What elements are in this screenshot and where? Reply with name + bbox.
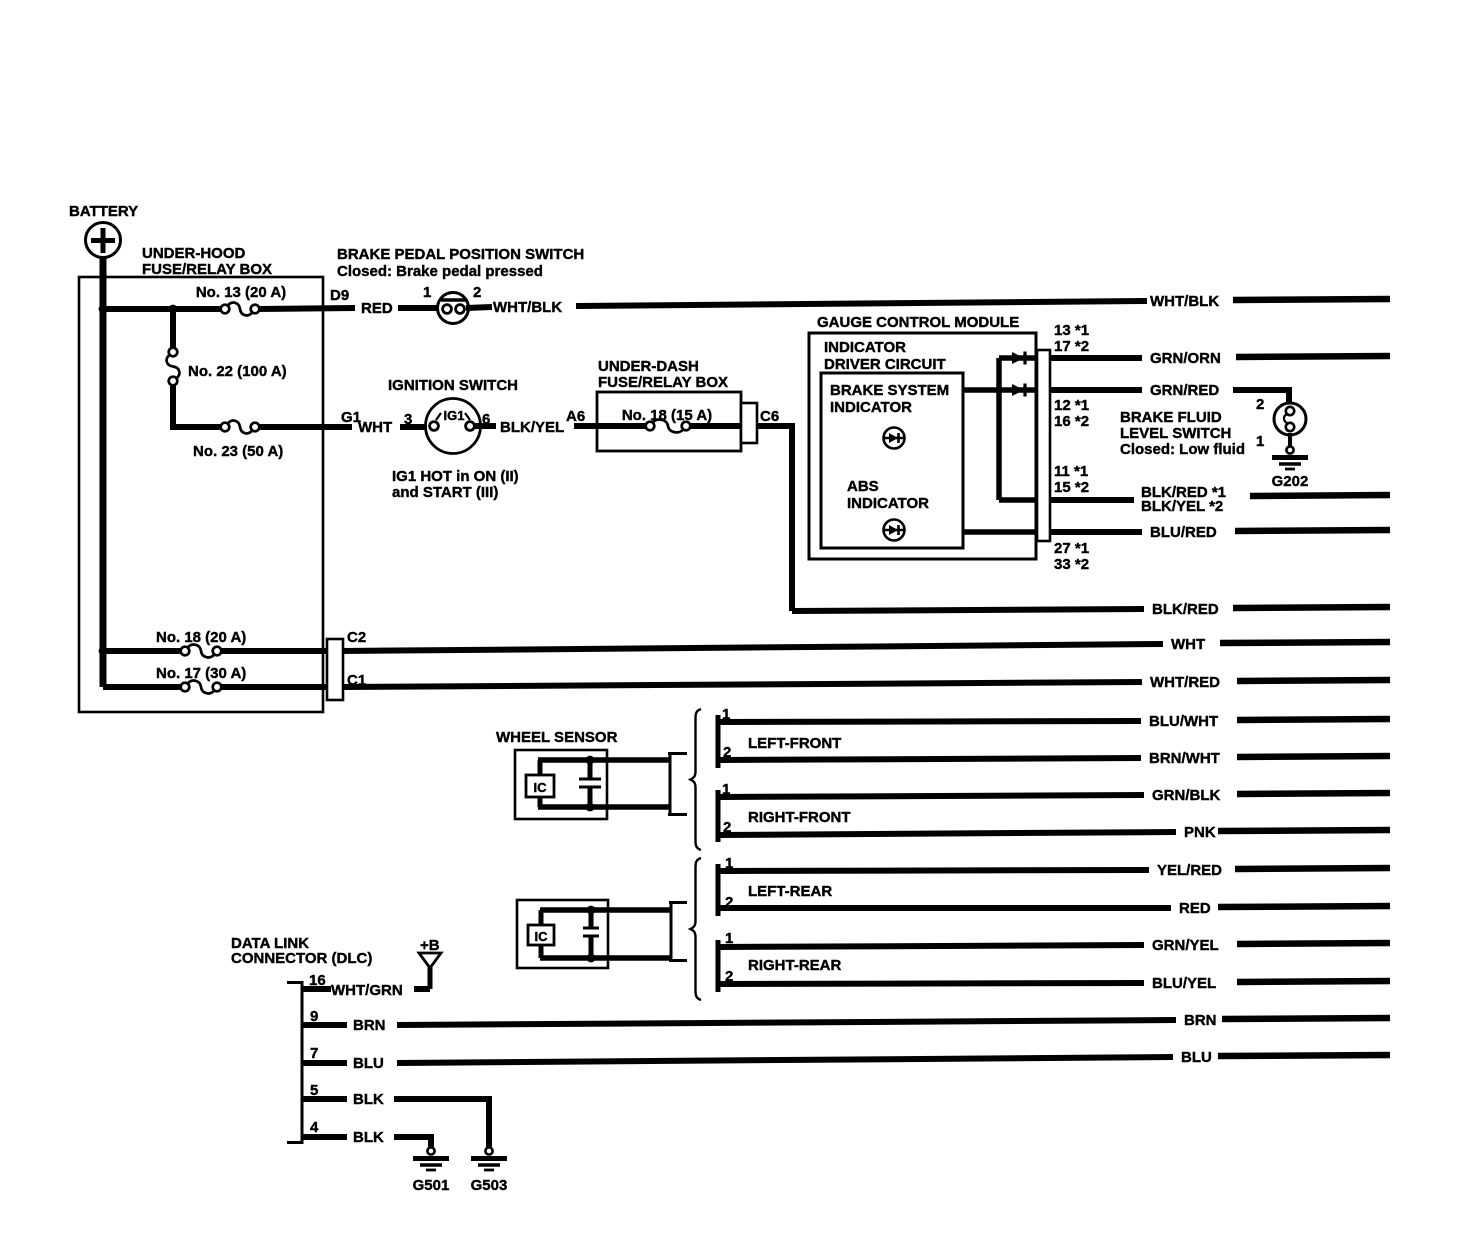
svg-text:C2: C2 — [347, 629, 366, 646]
svg-text:12 *1: 12 *1 — [1054, 397, 1089, 414]
svg-text:No. 17 (30 A): No. 17 (30 A) — [156, 665, 246, 682]
svg-text:BLU: BLU — [1181, 1049, 1212, 1066]
wire BLK (pin 5) — [302, 1096, 347, 1102]
svg-text:1: 1 — [423, 284, 431, 301]
svg-text:15 *2: 15 *2 — [1054, 479, 1089, 496]
wire battery to fuse No.13 — [103, 306, 221, 312]
svg-text:BRN/WHT: BRN/WHT — [1149, 750, 1220, 767]
wire BRN — [302, 1022, 347, 1028]
svg-text:2: 2 — [473, 284, 481, 301]
ground G202 — [1286, 446, 1293, 453]
svg-text:CONNECTOR (DLC): CONNECTOR (DLC) — [231, 950, 372, 967]
under-hood fuse/relay box — [79, 245, 323, 712]
fuse No. 22 (100 A) — [167, 348, 287, 386]
wire sensor1 bottom — [538, 804, 670, 810]
svg-text:33 *2: 33 *2 — [1054, 556, 1089, 573]
svg-text:4: 4 — [310, 1119, 319, 1136]
wire fuse No.13 to D9 — [259, 308, 355, 309]
svg-text:LEVEL SWITCH: LEVEL SWITCH — [1120, 425, 1231, 442]
svg-text:C6: C6 — [760, 408, 779, 425]
svg-text:LEFT-FRONT: LEFT-FRONT — [748, 735, 841, 752]
svg-text:GRN/RED: GRN/RED — [1150, 382, 1219, 399]
svg-text:BLK: BLK — [353, 1129, 384, 1146]
svg-text:BRAKE FLUID: BRAKE FLUID — [1120, 409, 1222, 426]
wire BLK/RED *1 / BLK/YEL *2 — [1050, 497, 1134, 503]
wire WHT/RED (C1) — [343, 682, 1142, 687]
svg-text:LEFT-REAR: LEFT-REAR — [748, 883, 832, 900]
svg-text:BRN: BRN — [353, 1017, 386, 1034]
gauge control module — [809, 314, 1036, 559]
IC front sensor — [526, 760, 554, 807]
svg-text:3: 3 — [404, 411, 412, 428]
node LEFT-REAR connector — [716, 864, 721, 916]
svg-text:DRIVER CIRCUIT: DRIVER CIRCUIT — [824, 356, 946, 373]
svg-text:INDICATOR: INDICATOR — [830, 399, 912, 416]
svg-text:+B: +B — [420, 937, 440, 954]
wire BLU — [302, 1060, 347, 1066]
svg-text:IG1 HOT in ON (II): IG1 HOT in ON (II) — [392, 468, 519, 485]
svg-text:INDICATOR: INDICATOR — [847, 495, 929, 512]
wire fuse No.22 to No.23 — [170, 385, 176, 430]
ground G501 — [427, 1147, 434, 1154]
svg-text:IG1: IG1 — [444, 408, 465, 423]
svg-text:BLK/YEL *2: BLK/YEL *2 — [1141, 498, 1223, 515]
fuse No. 13 (20 A) — [196, 284, 286, 315]
wire into fuse No.18 (15A) — [597, 423, 646, 429]
wire WHT/BLK long run — [576, 301, 1147, 306]
svg-text:BLK/YEL: BLK/YEL — [500, 419, 564, 436]
node junction branch to No.22 — [169, 305, 178, 314]
wire GRN/BLK (RF pin 1) — [720, 795, 1144, 797]
brace rear wheel circuits — [691, 858, 702, 1000]
wire WHT/GRN — [302, 986, 331, 992]
wire ABS indicator output — [963, 529, 1037, 535]
svg-text:17 *2: 17 *2 — [1054, 338, 1089, 355]
wire PNK (RF pin 2) — [720, 832, 1176, 835]
svg-text:BLU: BLU — [353, 1055, 384, 1072]
svg-text:RED: RED — [361, 300, 393, 317]
wire BLU/WHT (LF pin 1) — [720, 721, 1141, 722]
capacitor rear sensor — [583, 906, 599, 963]
svg-text:G501: G501 — [413, 1177, 450, 1194]
wire GRN/YEL (RR pin 1) — [720, 945, 1144, 947]
svg-text:FUSE/RELAY BOX: FUSE/RELAY BOX — [598, 374, 728, 391]
svg-text:and START (III): and START (III) — [392, 484, 498, 501]
wire BLK/YEL — [474, 423, 496, 429]
svg-text:ABS: ABS — [847, 478, 879, 495]
svg-text:RIGHT-FRONT: RIGHT-FRONT — [748, 809, 851, 826]
connector gauge module — [1037, 350, 1050, 541]
node junction battery/No.18 — [99, 647, 108, 656]
data link connector (DLC) — [231, 935, 372, 1144]
ignition switch — [388, 377, 519, 501]
brake fluid level switch — [1120, 396, 1306, 458]
wire to pin 11/15 — [999, 497, 1037, 503]
capacitor front sensor — [579, 756, 601, 812]
wire diode D1 row — [999, 355, 1037, 361]
connector C2/C1 — [327, 639, 343, 700]
connector bracket rear sensor — [669, 901, 687, 962]
svg-text:7: 7 — [310, 1045, 318, 1062]
svg-text:WHEEL SENSOR: WHEEL SENSOR — [496, 729, 618, 746]
node RIGHT-FRONT connector — [716, 790, 721, 842]
svg-text:BLU/RED: BLU/RED — [1150, 524, 1217, 541]
svg-text:BLU/WHT: BLU/WHT — [1149, 713, 1218, 730]
brake pedal position switch — [337, 246, 584, 324]
svg-text:BLK: BLK — [353, 1091, 384, 1108]
svg-text:BRAKE SYSTEM: BRAKE SYSTEM — [830, 382, 949, 399]
svg-text:No. 22 (100 A): No. 22 (100 A) — [188, 363, 287, 380]
diode D1 — [1012, 352, 1024, 364]
svg-text:16 *2: 16 *2 — [1054, 413, 1089, 430]
ABS indicator lamp — [884, 520, 905, 541]
wire WHT/BLK left segment — [466, 307, 492, 308]
wire fuse No.23 to G1 — [259, 424, 352, 430]
svg-text:WHT/BLK: WHT/BLK — [1150, 293, 1219, 310]
svg-text:GRN/BLK: GRN/BLK — [1152, 787, 1220, 804]
node junction battery/No.13 — [99, 305, 108, 314]
wire C6 down to BLK/RED — [757, 423, 795, 429]
wire brake system indicator output — [963, 387, 1037, 393]
wire YEL/RED (LR pin 1) — [720, 870, 1149, 871]
svg-text:BLK/RED: BLK/RED — [1152, 601, 1219, 618]
svg-text:INDICATOR: INDICATOR — [824, 339, 906, 356]
diode D2 — [1012, 384, 1024, 396]
node LEFT-FRONT connector — [716, 715, 721, 768]
wire GRN/ORN — [1050, 355, 1142, 361]
svg-text:2: 2 — [1256, 396, 1264, 413]
svg-text:WHT: WHT — [1171, 636, 1205, 653]
wire sensor1 top — [538, 757, 670, 763]
svg-text:BATTERY: BATTERY — [69, 203, 138, 220]
svg-text:No. 23 (50 A): No. 23 (50 A) — [193, 443, 283, 460]
wire BLU/RED — [1050, 529, 1142, 535]
svg-text:GRN/ORN: GRN/ORN — [1150, 350, 1221, 367]
svg-text:11 *1: 11 *1 — [1054, 463, 1088, 480]
IC rear sensor — [528, 910, 554, 958]
brake system indicator lamp — [884, 428, 905, 449]
connector C6 — [741, 403, 757, 443]
wire BLU/YEL (RR pin 2) — [720, 983, 1144, 984]
svg-text:RED: RED — [1179, 900, 1211, 917]
svg-text:RIGHT-REAR: RIGHT-REAR — [748, 957, 842, 974]
svg-text:WHT: WHT — [358, 419, 392, 436]
wire WHT (C2) — [343, 644, 1163, 651]
wheel sensor rear — [517, 900, 608, 968]
svg-text:Closed: Low fluid: Closed: Low fluid — [1120, 441, 1245, 458]
wire fuse No.18 to C2 — [221, 648, 329, 654]
wire branch to fuse No.22 — [170, 309, 176, 348]
battery — [69, 203, 138, 258]
svg-text:UNDER-HOOD: UNDER-HOOD — [142, 245, 245, 262]
svg-text:13 *1: 13 *1 — [1054, 322, 1089, 339]
svg-text:WHT/BLK: WHT/BLK — [493, 299, 562, 316]
svg-text:GAUGE CONTROL MODULE: GAUGE CONTROL MODULE — [817, 314, 1019, 331]
fuse No. 18 (15 A) — [622, 407, 712, 432]
wire fuse to C6 — [690, 423, 744, 429]
svg-text:UNDER-DASH: UNDER-DASH — [598, 358, 699, 375]
under-dash fuse/relay box — [597, 358, 741, 451]
svg-text:WHT/GRN: WHT/GRN — [331, 982, 403, 999]
svg-text:BRN: BRN — [1184, 1012, 1217, 1029]
wire BRN/WHT (LF pin 2) — [720, 758, 1141, 760]
indicator driver circuit box — [821, 373, 963, 548]
wire battery to fuse No.17 — [103, 684, 181, 690]
svg-text:Closed: Brake pedal pressed: Closed: Brake pedal pressed — [337, 263, 543, 280]
wire sensor2 top — [540, 907, 671, 913]
fuse No. 23 (50 A) — [193, 421, 283, 460]
fuse No. 18 (20 A) — [156, 629, 246, 657]
svg-text:GRN/YEL: GRN/YEL — [1152, 937, 1219, 954]
wire RED (LR pin 2) — [720, 905, 1171, 911]
wire switch to ground — [1288, 433, 1292, 447]
svg-text:27 *1: 27 *1 — [1054, 540, 1089, 557]
svg-text:D9: D9 — [330, 287, 349, 304]
wire BLK (pin 4) — [302, 1134, 347, 1140]
svg-text:G503: G503 — [471, 1177, 508, 1194]
wire BLK/RED — [792, 609, 1144, 611]
svg-text:A6: A6 — [566, 408, 585, 425]
power +B — [419, 937, 441, 989]
fuse No. 17 (30 A) — [156, 665, 246, 693]
wheel sensor front — [496, 729, 618, 819]
svg-text:G202: G202 — [1272, 473, 1309, 490]
wire GRN/RED — [1050, 387, 1142, 393]
wire sensor2 bottom — [540, 955, 671, 961]
wire diode branch vertical — [996, 358, 1002, 500]
wire battery positive feed (vertical) — [100, 257, 107, 687]
node RIGHT-REAR connector — [716, 940, 721, 992]
svg-text:BRAKE PEDAL POSITION SWITCH: BRAKE PEDAL POSITION SWITCH — [337, 246, 584, 263]
svg-text:IC: IC — [534, 780, 548, 795]
svg-text:FUSE/RELAY BOX: FUSE/RELAY BOX — [142, 261, 272, 278]
svg-text:1: 1 — [1256, 433, 1264, 450]
svg-text:BLU/YEL: BLU/YEL — [1152, 975, 1216, 992]
svg-text:No. 13 (20 A): No. 13 (20 A) — [196, 284, 286, 301]
connector bracket front sensor — [668, 752, 687, 816]
wire battery to fuse No.18 — [103, 648, 181, 654]
ground G503 — [485, 1147, 492, 1154]
svg-text:WHT/RED: WHT/RED — [1150, 674, 1220, 691]
svg-text:PNK: PNK — [1184, 824, 1216, 841]
svg-text:No. 18 (20 A): No. 18 (20 A) — [156, 629, 246, 646]
svg-text:IGNITION SWITCH: IGNITION SWITCH — [388, 377, 518, 394]
svg-text:IC: IC — [535, 929, 549, 944]
svg-text:YEL/RED: YEL/RED — [1157, 862, 1222, 879]
brace front wheel circuits — [691, 709, 702, 850]
wire fuse No.17 to C1 — [221, 684, 329, 690]
